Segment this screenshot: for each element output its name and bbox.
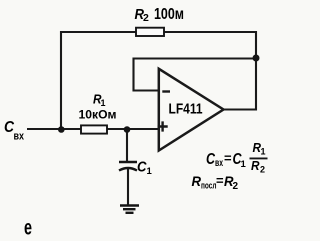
ground	[120, 206, 139, 213]
op-amp plus input sign	[158, 121, 168, 131]
wire: capacitor C1 top lead	[126, 129, 128, 161]
capacitor C1 bottom curved plate	[119, 168, 137, 171]
resistor R1	[81, 125, 107, 133]
svg-text:C: C	[137, 160, 147, 176]
wire: right vertical from top wire down to output	[255, 31, 257, 111]
op-amp minus input sign	[162, 90, 170, 92]
svg-text:=: =	[216, 173, 224, 188]
svg-text:1: 1	[241, 159, 247, 170]
svg-text:е: е	[24, 217, 32, 240]
svg-text:1: 1	[101, 98, 106, 108]
svg-text:2: 2	[233, 181, 239, 192]
svg-text:=: =	[224, 151, 232, 166]
svg-text:1: 1	[147, 166, 153, 177]
op-amp U1 LF411 triangle	[159, 69, 224, 151]
wire: inverting input loop horizontal upper	[134, 57, 257, 59]
junction dot at input node A	[58, 126, 65, 133]
svg-text:вх: вх	[215, 158, 223, 169]
wire: inverting input loop vertical	[132, 58, 134, 92]
capacitor C1 top plate	[119, 161, 137, 163]
wire: top feedback horizontal right segment	[164, 31, 257, 33]
wire: top feedback horizontal left segment	[61, 31, 137, 33]
wire: left vertical from top wire to input node	[60, 31, 62, 130]
wire: capacitor C1 bottom lead	[127, 169, 129, 205]
formula Cin = C1 R1/R2	[206, 140, 268, 175]
svg-text:100м: 100м	[154, 6, 184, 23]
svg-text:2: 2	[260, 165, 265, 175]
wire: main input line	[27, 128, 160, 130]
wire: inverting input stub	[133, 89, 161, 91]
formula Rseries = R2	[192, 173, 239, 192]
svg-text:1: 1	[261, 147, 266, 157]
svg-text:LF411: LF411	[169, 101, 203, 118]
svg-text:вх: вх	[14, 130, 25, 142]
svg-text:посл: посл	[201, 181, 217, 192]
wire: output of op-amp to right vertical	[222, 108, 257, 110]
junction dot at feedback/output node	[253, 55, 260, 62]
svg-text:2: 2	[143, 12, 149, 24]
junction dot at R1 output node B	[124, 126, 131, 133]
resistor R2	[136, 28, 164, 36]
svg-text:C: C	[206, 151, 215, 168]
svg-text:10кОм: 10кОм	[79, 107, 117, 121]
svg-text:R: R	[251, 158, 260, 173]
